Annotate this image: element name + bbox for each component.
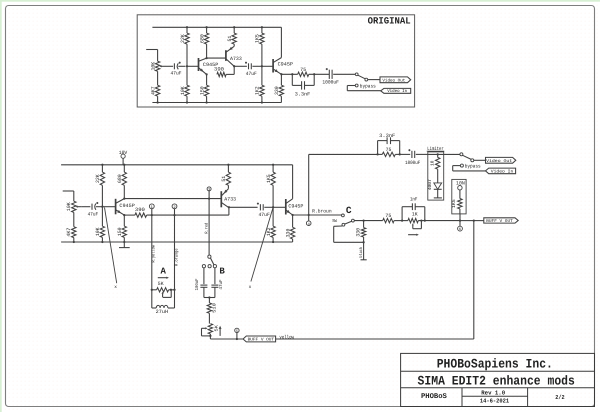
svg-text:10: 10 [430, 160, 436, 166]
svg-text:5K: 5K [214, 325, 219, 332]
svg-text:BUFF V OUT: BUFF V OUT [248, 338, 275, 343]
svg-text:A733: A733 [230, 56, 242, 62]
svg-text:330: 330 [285, 229, 291, 238]
svg-text:5K: 5K [158, 281, 164, 287]
svg-text:PHOBoS: PHOBoS [421, 393, 448, 401]
svg-text:R.broun: R.broun [312, 208, 332, 214]
svg-text:ORIGINAL: ORIGINAL [368, 16, 411, 27]
svg-text:680: 680 [117, 174, 123, 183]
svg-text:390: 390 [214, 67, 224, 73]
svg-text:4K7: 4K7 [150, 86, 156, 95]
svg-text:27uH: 27uH [156, 309, 168, 315]
svg-text:C945P: C945P [288, 204, 303, 210]
svg-text:390: 390 [135, 207, 145, 213]
svg-text:51: 51 [227, 36, 233, 42]
svg-text:47uF: 47uF [171, 71, 182, 77]
svg-text:1K5: 1K5 [255, 34, 261, 43]
svg-text:47uF: 47uF [246, 71, 257, 77]
svg-text:x: x [114, 285, 117, 290]
svg-text:22K: 22K [95, 174, 101, 183]
svg-text:22K: 22K [180, 34, 186, 43]
svg-text:PHOBoSapiens Inc.: PHOBoSapiens Inc. [437, 357, 553, 372]
svg-text:1nF: 1nF [410, 197, 418, 203]
svg-text:510: 510 [212, 303, 217, 313]
svg-text:75: 75 [300, 67, 306, 73]
svg-text:10K: 10K [180, 86, 186, 95]
svg-text:1K2: 1K2 [255, 86, 261, 95]
svg-text:1000uF: 1000uF [405, 160, 420, 166]
svg-text:10K: 10K [150, 62, 156, 71]
svg-text:SIMA EDIT2 enhance mods: SIMA EDIT2 enhance mods [418, 374, 575, 389]
svg-text:330: 330 [356, 228, 362, 237]
svg-text:75: 75 [386, 147, 392, 153]
svg-text:bypass: bypass [465, 164, 481, 170]
svg-text:x: x [249, 285, 252, 290]
svg-text:4: 4 [308, 222, 310, 227]
svg-text:1000uF: 1000uF [322, 79, 339, 85]
svg-text:100uF: 100uF [195, 278, 200, 290]
svg-text:BUFF V OUT: BUFF V OUT [486, 219, 513, 224]
svg-text:4007: 4007 [427, 179, 433, 190]
svg-text:3.3nF: 3.3nF [295, 91, 311, 97]
svg-text:47uF: 47uF [88, 211, 99, 217]
svg-text:10K: 10K [95, 227, 101, 236]
svg-text:14-6-2021: 14-6-2021 [480, 398, 510, 405]
svg-text:SW: SW [332, 219, 337, 224]
svg-text:4K7: 4K7 [66, 228, 72, 237]
svg-text:75: 75 [385, 213, 391, 219]
svg-text:680: 680 [199, 34, 205, 43]
svg-text:B: B [219, 267, 225, 277]
svg-text:1K5: 1K5 [266, 174, 272, 183]
svg-text:bypass: bypass [360, 83, 376, 89]
svg-text:47uF: 47uF [258, 212, 270, 218]
svg-text:yellow: yellow [279, 334, 294, 340]
svg-text:A733: A733 [224, 196, 236, 202]
svg-text:C: C [346, 205, 352, 216]
svg-text:C945P: C945P [278, 62, 293, 68]
svg-text:10V: 10V [119, 150, 128, 156]
svg-text:C945P: C945P [119, 203, 134, 209]
svg-text:47uF: 47uF [219, 279, 224, 290]
svg-text:3.3nF: 3.3nF [379, 133, 395, 139]
svg-text:330: 330 [274, 86, 280, 95]
svg-text:Rev 1.0: Rev 1.0 [481, 390, 505, 397]
svg-text:150: 150 [199, 86, 205, 95]
svg-text:51: 51 [221, 176, 227, 182]
svg-text:R.orange: R.orange [174, 248, 179, 266]
svg-text:2/2: 2/2 [555, 394, 565, 401]
svg-text:A: A [160, 266, 166, 276]
svg-text:10K: 10K [66, 202, 72, 211]
svg-text:1K5: 1K5 [451, 199, 457, 208]
svg-text:6: 6 [459, 227, 461, 232]
svg-text:1K: 1K [412, 212, 418, 218]
svg-text:150: 150 [117, 227, 123, 236]
